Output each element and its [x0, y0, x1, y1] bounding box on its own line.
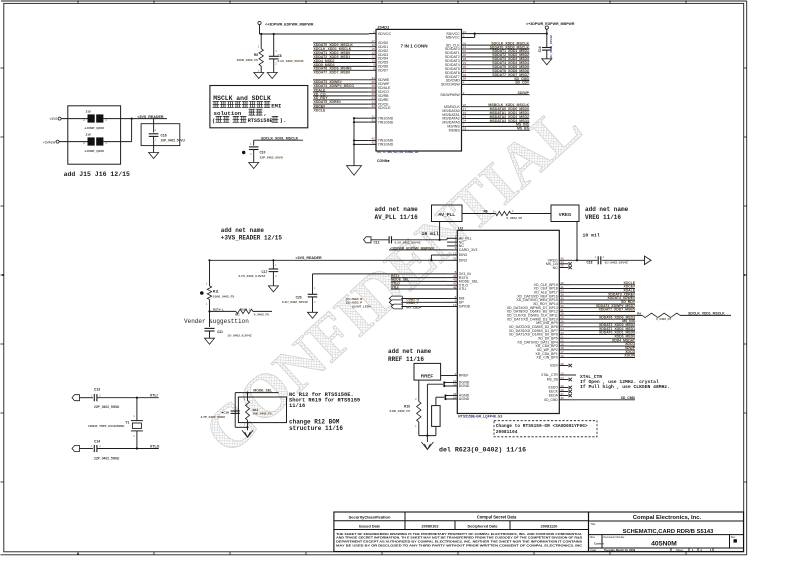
wire +3VS_READER rail: [210, 259, 448, 261]
svg-text:10 mil: 10 mil: [422, 231, 439, 237]
wire MODE_SEL: [391, 280, 447, 282]
svg-text:ESDI: ESDI: [550, 364, 558, 368]
wire crystal vertical: [136, 398, 138, 421]
net box VREG: [551, 205, 579, 222]
svg-text:XD/VCC: XD/VCC: [378, 32, 392, 36]
svg-text:AGND: AGND: [459, 397, 470, 401]
ground symbol: [421, 442, 433, 450]
wire AGND jog: [446, 395, 448, 397]
svg-text:XTLI: XTLI: [150, 394, 158, 398]
svg-text:).: ).: [280, 117, 287, 124]
off-page arrow C14x: [72, 446, 80, 452]
connector right pins: [462, 33, 469, 35]
svg-text:4.7U_0402_6.3V4Z: 4.7U_0402_6.3V4Z: [238, 274, 265, 278]
svg-text:XTAL_CTR: XTAL_CTR: [541, 373, 558, 377]
svg-text:XTLO: XTLO: [150, 445, 160, 449]
svg-text:R8: R8: [254, 53, 258, 57]
U1 right bus pins and wires: [559, 284, 570, 286]
R14 block box: [238, 397, 286, 423]
svg-text:Document Number: Document Number: [604, 536, 625, 539]
wire C12 to U1 AV_PLL: [392, 239, 447, 241]
net box AV_PLL: [432, 205, 463, 222]
svg-text:add net name: add net name: [375, 206, 419, 213]
svg-text:Tuesday, March 10, 2009: Tuesday, March 10, 2009: [604, 548, 636, 552]
wire RREF box to U1: [441, 375, 447, 377]
capacitor C21: [209, 311, 211, 327]
svg-text:XTLI: XTLI: [459, 287, 467, 291]
wire RST#: [391, 277, 447, 279]
svg-text:14: 14: [453, 303, 457, 307]
svg-text:MSCLK and SDCLK: MSCLK and SDCLK: [213, 95, 271, 102]
svg-text:add net name: add net name: [221, 227, 265, 234]
svg-text:1U_0402_10V4Z: 1U_0402_10V4Z: [605, 260, 629, 264]
svg-text:●C19: ●C19: [221, 411, 229, 415]
svg-text:Vender suggesttion: Vender suggesttion: [184, 318, 249, 325]
no-connect X marks: [569, 262, 572, 265]
CJK line 2: [213, 101, 271, 108]
svg-text:RTS5158E: RTS5158E: [248, 118, 273, 124]
svg-text:C16: C16: [161, 133, 167, 137]
svg-text:C14: C14: [538, 46, 542, 52]
svg-text:32: 32: [453, 382, 457, 386]
node C8 top: [273, 33, 275, 35]
svg-text:12MHZ_TRPF_EX10256ND: 12MHZ_TRPF_EX10256ND: [88, 424, 124, 428]
wire DIN3 pin13 jog: [431, 254, 447, 256]
svg-text:4.7P_0402_50NU: 4.7P_0402_50NU: [201, 415, 226, 419]
svg-text:SecurityClassification: SecurityClassification: [349, 515, 391, 520]
svg-text:MS/VCC: MS/VCC: [446, 36, 460, 40]
svg-text:JS4D1: JS4D1: [377, 24, 390, 29]
net box RREF: [414, 363, 441, 380]
wire AV_PLL box down to pin row: [439, 222, 441, 240]
capacitor C16 box: [141, 124, 180, 146]
svg-text:,: ,: [264, 110, 267, 117]
svg-text:7IN1GND: 7IN1GND: [378, 120, 394, 124]
power symbol +3DPWR_EDPWR_MBPWR (left): [258, 21, 261, 24]
wire bottom join: [235, 426, 247, 428]
crystal Y1: [131, 420, 143, 422]
capacitor C16: [153, 119, 155, 133]
svg-text:XDCIN: XDCIN: [624, 354, 635, 358]
svg-text:22P_0402_50VU: 22P_0402_50VU: [260, 155, 284, 159]
svg-text:RREF: RREF: [421, 373, 434, 378]
wire AV_PLL box to R6: [462, 213, 496, 215]
svg-text:C14: C14: [94, 440, 100, 444]
svg-text:R10: R10: [404, 404, 410, 408]
svg-text:C12: C12: [374, 241, 380, 245]
svg-text:SD_CD#: SD_CD#: [515, 81, 529, 85]
svg-text:20081120: 20081120: [541, 524, 558, 528]
svg-text:10P_0402_50VU: 10P_0402_50VU: [161, 138, 186, 142]
connector left pins: [369, 33, 376, 35]
title block left table: [334, 512, 589, 552]
wire XTLI: [391, 288, 447, 290]
capacitor C17: [272, 259, 274, 261]
svg-text:CARD_3V3: CARD_3V3: [459, 248, 478, 252]
wire J16 to junction: [103, 141, 131, 143]
svg-text:22P_0402_50NU: 22P_0402_50NU: [94, 456, 120, 460]
svg-text:<+3DPWR_EDPWR_MBPWR: <+3DPWR_EDPWR_MBPWR: [265, 22, 314, 26]
svg-text:MS_BS: MS_BS: [517, 127, 530, 131]
svg-text:XD_CMD: XD_CMD: [544, 398, 559, 402]
node XTLI: [136, 397, 138, 399]
svg-text:Sheet: Sheet: [676, 548, 683, 552]
wire VREG to off-page arrow: [570, 259, 597, 261]
wire R6 to VREG box: [511, 213, 551, 215]
svg-text:MODE_SEL: MODE_SEL: [253, 389, 272, 393]
svg-text:Date:: Date:: [591, 548, 597, 552]
ground below C8: [267, 73, 277, 79]
svg-text:11/16: 11/16: [289, 403, 305, 409]
svg-text:+3VS_READER 12/15: +3VS_READER 12/15: [221, 235, 283, 242]
resistor R623 (deleted, box style): [432, 406, 441, 427]
off-page arrow VREG: [645, 256, 652, 264]
svg-text:<3VS_READER: <3VS_READER: [137, 115, 163, 119]
svg-text:SDCLK_XD01_MSCLK: SDCLK_XD01_MSCLK: [261, 136, 299, 140]
capacitor C14 (crystal): [80, 448, 93, 450]
svg-text:VREG 11/16: VREG 11/16: [585, 214, 621, 221]
off-page arrow AV_PLL decap: [364, 237, 372, 243]
svg-text:XD/CLE: XD/CLE: [378, 106, 392, 110]
svg-text:XD/D7: XD/D7: [378, 69, 389, 73]
svg-text:33: 33: [453, 257, 457, 261]
wire MS/VCC jog: [469, 37, 475, 39]
off-page arrow C13: [72, 395, 80, 401]
svg-text:13: 13: [453, 251, 457, 255]
ground rail: [419, 435, 436, 437]
capacitor C20: [312, 274, 314, 294]
svg-text:RTS5158E-GR_LQFP48_G3: RTS5158E-GR_LQFP48_G3: [458, 414, 502, 418]
svg-text:42: 42: [371, 141, 375, 145]
ground below C16: [149, 153, 159, 159]
svg-text:Compal Electronics, Inc.: Compal Electronics, Inc.: [633, 515, 702, 521]
ground below C17: [268, 286, 278, 292]
svg-text:C10: C10: [260, 151, 266, 155]
svg-text:<3VALW: <3VALW: [43, 140, 57, 144]
wire J15 to +3VS_READER: [103, 118, 167, 120]
wire arrow to C12: [371, 239, 389, 241]
U1 right pins: VREG group: [559, 259, 570, 261]
J15 J16 jumper block box: [68, 106, 121, 164]
svg-text:AV_PLL 11/16: AV_PLL 11/16: [375, 214, 419, 221]
capacitor C18: [597, 256, 599, 264]
wire R619 out: [253, 310, 272, 312]
svg-text:100K_0402_F5: 100K_0402_F5: [237, 58, 259, 62]
svg-text:405N0M: 405N0M: [651, 540, 677, 547]
svg-text:31: 31: [371, 118, 375, 122]
title block right section: [589, 512, 744, 552]
ground below R8: [254, 73, 264, 79]
svg-text:XD_CIN_BP0: XD_CIN_BP0: [536, 356, 557, 360]
svg-text:12: 12: [560, 371, 564, 375]
wire 3VS to J15: [61, 118, 87, 120]
wire XTLO: [391, 284, 447, 286]
capacitor C13: [80, 397, 93, 399]
svg-text:48: 48: [453, 285, 457, 289]
svg-text:INT_LED#: INT_LED#: [406, 305, 421, 309]
ground below C21: [205, 338, 215, 344]
op-amp U1 RTS5158 card reader IC box: [457, 230, 559, 413]
svg-text:36: 36: [560, 396, 564, 400]
SD/WP wire: [469, 94, 530, 96]
wire RST row: [210, 310, 236, 312]
XD data bus wires (left of connector): [313, 42, 369, 44]
svg-text:of: of: [700, 548, 702, 552]
svg-text:add J15 J16 12/15: add J15 J16 12/15: [64, 171, 130, 178]
node XTLO: [136, 447, 138, 449]
ground below connector: [347, 166, 362, 176]
svg-text:●JUMP_QX08: ●JUMP_QX08: [84, 149, 104, 153]
connector ground wires: [354, 117, 369, 119]
svg-text:MS_D6: MS_D6: [547, 378, 558, 382]
size / document number / rev cells: [601, 535, 603, 548]
svg-text:SCHEMATIC,CARD RDR/B S5143: SCHEMATIC,CARD RDR/B S5143: [623, 529, 714, 535]
svg-text:structure 11/16: structure 11/16: [289, 425, 343, 432]
svg-text:XTLI: XTLI: [391, 285, 398, 289]
svg-text:Issued Date: Issued Date: [359, 524, 380, 528]
svg-text:C13: C13: [94, 388, 100, 392]
svg-text:RREF: RREF: [459, 374, 470, 378]
wire SD/VCC to power: [469, 33, 547, 35]
svg-text:XDDAT7_XDD7_MSD0: XDDAT7_XDD7_MSD0: [314, 71, 351, 75]
wire SDCLK: [254, 139, 303, 141]
svg-text:EMI: EMI: [271, 102, 281, 109]
svg-text:R9: R9: [637, 311, 641, 315]
capacitor C19 branch: [234, 393, 236, 428]
svg-text:Change to RTS5159-GR <SAGD001Y: Change to RTS5159-GR <SAGD001YF0G>: [496, 423, 588, 429]
SD bus wires (right of connector): [469, 44, 530, 46]
ground below C20: [308, 312, 318, 318]
node R8 top: [260, 33, 262, 35]
svg-text:J16: J16: [86, 133, 91, 137]
svg-text:0_0402_F5: 0_0402_F5: [507, 216, 523, 220]
svg-text:100K_0402_F5: 100K_0402_F5: [213, 295, 235, 299]
svg-text:XDDAT7_XDD7_MSBS: XDDAT7_XDD7_MSBS: [599, 308, 636, 312]
wire DGND jog: [444, 382, 447, 384]
svg-text:XDCLE: XDCLE: [314, 108, 327, 112]
svg-text:0_0402_F5: 0_0402_F5: [254, 313, 270, 317]
svg-text:del R623(0_0402) 11/16: del R623(0_0402) 11/16: [439, 447, 526, 454]
arrow DM: [389, 296, 402, 301]
svg-text:10 mil: 10 mil: [583, 233, 600, 239]
svg-text:<+3DPWR_EDPWR_MBPWR: <+3DPWR_EDPWR_MBPWR: [526, 22, 575, 26]
capacitor C10: [253, 140, 255, 145]
XD control bus wires: [313, 79, 369, 81]
svg-text:<3VS: <3VS: [49, 117, 58, 121]
connector JS4D1 box: [376, 29, 462, 151]
svg-text:SD/WP: SD/WP: [518, 91, 530, 95]
svg-text:RST#_L: RST#_L: [213, 308, 224, 312]
svg-text:7IN1GND: 7IN1GND: [378, 143, 394, 147]
svg-text:20081104: 20081104: [496, 429, 518, 435]
svg-text:38: 38: [560, 362, 564, 366]
border zone ticks: [77, 0, 79, 3]
svg-text:add net name: add net name: [585, 206, 629, 213]
svg-text:Custom: Custom: [594, 541, 604, 545]
U1 right lower pins: [559, 365, 568, 367]
capacitor C14 (top right): [546, 33, 548, 35]
svg-text:AV_PLL: AV_PLL: [438, 212, 455, 217]
svg-text:16: 16: [453, 395, 457, 399]
MS bus wires: [469, 106, 530, 108]
svg-text:24: 24: [560, 376, 564, 380]
svg-text:CONN■: CONN■: [377, 159, 389, 163]
U1 left pins: [447, 237, 457, 239]
svg-text:0.1U_0402_50V4Z: 0.1U_0402_50V4Z: [282, 300, 308, 304]
resistor R14: [246, 392, 248, 394]
svg-text:(: (: [212, 117, 215, 124]
svg-text:MS/BS: MS/BS: [449, 129, 461, 133]
svg-text:(3) INT_LED#: (3) INT_LED#: [352, 305, 371, 309]
svg-text:MAY BE USED BY OR DISCLOSED TO: MAY BE USED BY OR DISCLOSED TO ANY THIRD…: [336, 544, 583, 548]
svg-text:Y1: Y1: [125, 421, 129, 425]
svg-text:0_0402_F5: 0_0402_F5: [656, 317, 672, 321]
svg-text:Compal Secret Data: Compal Secret Data: [477, 515, 517, 520]
node +3VS_READER: [131, 118, 133, 120]
svg-text:C8: C8: [278, 54, 282, 58]
date / sheet row: [670, 548, 672, 552]
svg-text:SD/CD#SW: SD/CD#SW: [441, 83, 461, 87]
wire power to XD/VCC pin: [259, 25, 261, 34]
wire MODE_SEL top: [235, 392, 278, 394]
svg-text:VREG: VREG: [559, 212, 572, 217]
svg-text:33: 33: [463, 127, 467, 131]
wire CARD_3V3: [389, 249, 447, 251]
svg-text:If Pull high , use CLKGEN 48MH: If Pull high , use CLKGEN 48MHz.: [580, 384, 670, 390]
resistor R619: [236, 309, 253, 313]
note dashed change box: [494, 421, 597, 437]
svg-text:SD/WP#SW: SD/WP#SW: [440, 93, 460, 97]
arrow DP: [389, 300, 402, 305]
svg-text:35: 35: [560, 264, 564, 268]
capacitor C12: [388, 236, 390, 243]
wire 3V3_IN rail: [313, 273, 448, 275]
svg-text:16: 16: [560, 354, 564, 358]
wire VREG box down to VREG pin: [576, 222, 578, 261]
arrow GPIO8: [391, 304, 402, 309]
svg-text:XTAL_CTR: XTAL_CTR: [580, 374, 602, 380]
svg-text:RREF 11/16: RREF 11/16: [388, 356, 424, 363]
svg-text:<3VS_READER: <3VS_READER: [296, 256, 322, 260]
svg-text:22P_0402_50NU: 22P_0402_50NU: [94, 405, 120, 409]
svg-text:C20: C20: [296, 296, 302, 300]
svg-text:U1: U1: [458, 225, 464, 230]
ground below C14: [542, 59, 552, 65]
ground below R14: [242, 430, 253, 437]
svg-text:7 IN 1 CONN: 7 IN 1 CONN: [401, 44, 429, 49]
svg-text:30: 30: [371, 104, 375, 108]
svg-text:GPIO8: GPIO8: [459, 305, 470, 309]
svg-text:DIN3: DIN3: [459, 253, 467, 257]
svg-text:1U_0402_10V4Z: 1U_0402_10V4Z: [549, 35, 553, 59]
svg-text:Deciphered Date: Deciphered Date: [468, 524, 498, 528]
capacitor C8: [273, 34, 275, 56]
svg-text:DIN3: DIN3: [459, 259, 467, 263]
svg-text:●JUMP_QX08: ●JUMP_QX08: [84, 126, 104, 130]
svg-text:XD_CMD: XD_CMD: [621, 396, 636, 400]
svg-text:20080102: 20080102: [422, 524, 439, 528]
svg-text:R6: R6: [484, 210, 488, 214]
svg-text:6.8K_0402_F5: 6.8K_0402_F5: [390, 409, 411, 413]
note box MSCLK and SDCLK: [210, 86, 308, 128]
wire 3VALW to J16: [59, 141, 87, 143]
svg-text:0.1U_0402_50V4Z: 0.1U_0402_50V4Z: [395, 241, 421, 245]
wire RREF box down / resistor R10: [418, 380, 420, 401]
svg-text:C18: C18: [587, 260, 593, 264]
resistor R11: [208, 259, 210, 261]
svg-text:Size: Size: [590, 536, 595, 539]
svg-text:add net name: add net name: [388, 348, 432, 355]
svg-text:10K_0402_F5: 10K_0402_F5: [253, 411, 272, 415]
resistor R8: [260, 34, 262, 49]
svg-text:C21: C21: [217, 330, 223, 334]
svg-text:R11: R11: [213, 290, 219, 294]
svg-text:SDCLK_XDD1_MSCLK: SDCLK_XDD1_MSCLK: [688, 312, 725, 316]
svg-text:J15: J15: [86, 110, 91, 114]
node RST: [208, 310, 210, 312]
svg-text:Title: Title: [591, 522, 596, 526]
svg-text:NC: NC: [553, 266, 559, 270]
svg-text:XS_TF_MS_SD_XD_LONG_JR: XS_TF_MS_SD_XD_LONG_JR: [377, 150, 419, 154]
svg-text:<3DPWR_EDPWR_MBPWR: <3DPWR_EDPWR_MBPWR: [390, 246, 434, 250]
svg-text:1U_0402_6.3V4Z: 1U_0402_6.3V4Z: [227, 333, 251, 337]
svg-text:DGND: DGND: [459, 384, 470, 388]
svg-text:0.1U_0402_50V4Z: 0.1U_0402_50V4Z: [278, 59, 304, 63]
svg-text:Rev: Rev: [731, 536, 736, 539]
ground below C10: [249, 163, 259, 169]
resistor R6: [496, 211, 511, 215]
